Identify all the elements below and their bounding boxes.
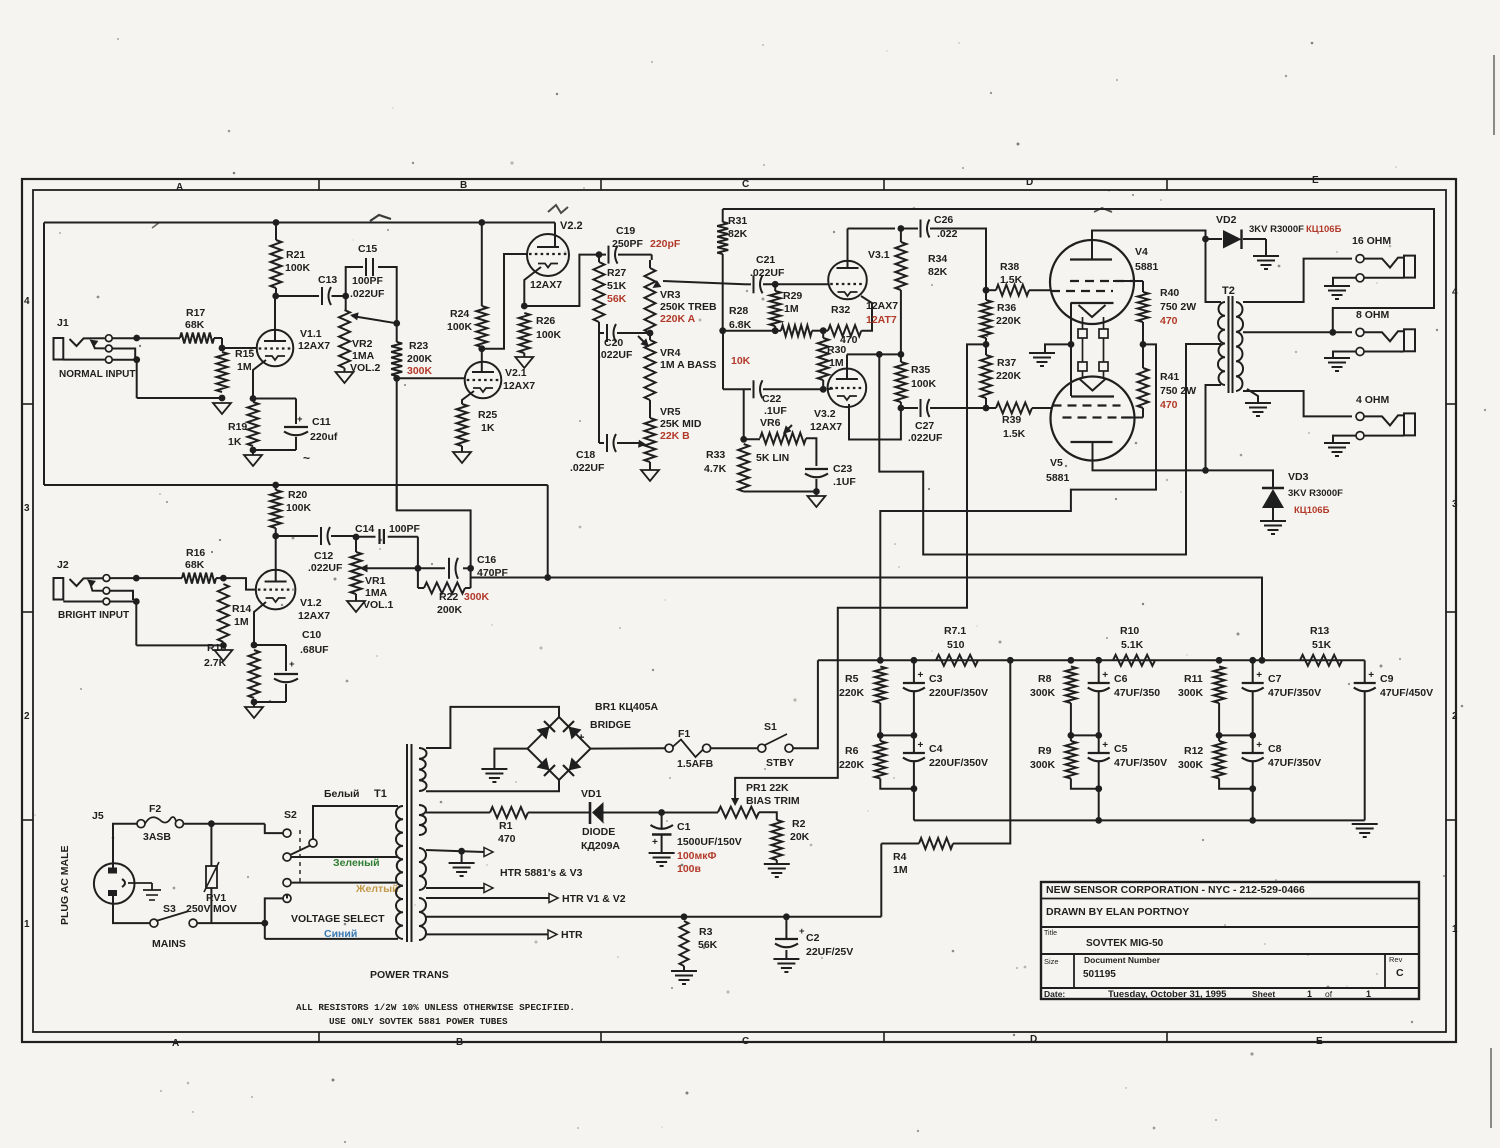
svg-text:DRAWN BY ELAN PORTNOY: DRAWN BY ELAN PORTNOY (1046, 906, 1189, 918)
node 8ohm NFB tap (1329, 329, 1336, 336)
svg-text:1.5K: 1.5K (1003, 428, 1026, 440)
wire R5C3 mid (880, 734, 914, 736)
node V1.2 plate (272, 533, 279, 540)
svg-text:51K: 51K (607, 280, 627, 292)
resistor R39 (996, 403, 1032, 414)
wire VR6 right to C23 (806, 438, 816, 466)
svg-text:470: 470 (498, 833, 516, 845)
svg-text:C26: C26 (934, 214, 953, 226)
svg-text:1500UF/150V: 1500UF/150V (677, 836, 742, 848)
capacitor C13 (321, 287, 323, 305)
wire R22 legs (417, 568, 419, 588)
resistor R9 (1065, 741, 1076, 779)
wire R32 stub (818, 330, 828, 332)
svg-text:КЦ106Б: КЦ106Б (1306, 224, 1342, 235)
title block frame (1041, 882, 1419, 999)
svg-text:C3: C3 (929, 673, 943, 685)
svg-text:Tuesday, October 31, 1995: Tuesday, October 31, 1995 (1108, 989, 1227, 1000)
wire R11C7 mid (1219, 734, 1253, 736)
wire C11 bottom (295, 437, 297, 450)
ground C2 (773, 958, 799, 960)
zone tick bottom (883, 1032, 885, 1043)
zone tick left (22, 611, 33, 613)
node B+ R21 tap (273, 219, 280, 226)
node V3.1 plate (898, 225, 905, 232)
node C2 tap (783, 913, 790, 920)
svg-text:of: of (1325, 989, 1333, 999)
jack J1 (54, 338, 64, 360)
svg-text:C21: C21 (756, 254, 775, 266)
svg-text:VR6: VR6 (760, 417, 781, 429)
wire R17 to grid node (214, 337, 222, 339)
capacitor C14 (378, 529, 380, 544)
wire S2 yellow tap (291, 882, 398, 884)
svg-text:R35: R35 (911, 364, 930, 376)
wire htr1 top lead (426, 850, 484, 852)
svg-text:BRIDGE: BRIDGE (590, 719, 631, 731)
svg-text:HTR: HTR (561, 929, 583, 941)
svg-text:C14: C14 (355, 523, 374, 535)
wire secondary 8ohm (1243, 331, 1352, 333)
wire V5 plate (1093, 442, 1206, 470)
wire heater reference bus (426, 916, 881, 918)
wire V1.2 plate lead (275, 536, 277, 582)
svg-text:Size: Size (1044, 957, 1059, 966)
svg-text:4: 4 (24, 296, 30, 307)
node V4 plate junction (1202, 236, 1209, 243)
wire V4 plate (1092, 231, 1206, 260)
resistor R20 ch2 (270, 490, 281, 528)
wire V2.1 plate lead (481, 347, 483, 372)
triode V1.2 (256, 570, 296, 610)
ground R18 (245, 707, 263, 718)
ground R3 (671, 970, 697, 972)
svg-text:+: + (918, 740, 924, 751)
svg-text:VR2: VR2 (352, 338, 373, 350)
svg-text:+: + (1102, 670, 1108, 681)
jack 4 OHM (1356, 412, 1364, 420)
svg-text:3KV R3000F: 3KV R3000F (1288, 488, 1343, 499)
svg-text:NEW SENSOR CORPORATION - NYC -: NEW SENSOR CORPORATION - NYC - 212-529-0… (1046, 884, 1305, 896)
svg-text:4 OHM: 4 OHM (1356, 394, 1390, 406)
wire R6 bottom (880, 779, 914, 789)
ground BR1 (481, 768, 507, 770)
svg-text:82K: 82K (928, 266, 948, 278)
svg-text:R13: R13 (1310, 625, 1329, 637)
wire VR6 tap from grid line (743, 389, 745, 439)
svg-text:5K LIN: 5K LIN (756, 452, 789, 464)
svg-text:R14: R14 (232, 603, 251, 615)
wire plate supply W3 (879, 344, 1221, 555)
svg-text:51K: 51K (1312, 639, 1332, 651)
svg-text:POWER TRANS: POWER TRANS (370, 969, 449, 981)
svg-text:300K: 300K (1030, 759, 1056, 771)
svg-text:R7.1: R7.1 (944, 625, 966, 637)
node V3.2 cathode out (898, 405, 905, 412)
svg-text:C: C (742, 179, 749, 190)
node VR1 top (353, 534, 360, 541)
node C3 rail (911, 657, 918, 664)
node C1 top (658, 809, 665, 816)
pot VR1 (351, 552, 362, 594)
svg-text:A: A (176, 182, 183, 193)
wire htr2 bottom lead (426, 933, 548, 935)
arrow htr1 top (484, 848, 493, 857)
fuse F1 (665, 744, 673, 752)
svg-text:SOVTEK MIG-50: SOVTEK MIG-50 (1086, 938, 1164, 949)
transformer T1 secondary bias (419, 805, 426, 835)
svg-text:R17: R17 (186, 307, 205, 319)
node B+ R24 tap (478, 219, 485, 226)
svg-text:C20: C20 (604, 337, 623, 349)
capacitor C4 (913, 735, 915, 753)
node bias mid (983, 341, 990, 348)
svg-text:2: 2 (24, 711, 30, 722)
transformer T2 core (1228, 296, 1230, 393)
bridge BR1 (528, 717, 591, 780)
node J1 sleeve (133, 356, 140, 363)
svg-text:12AX7: 12AX7 (298, 610, 330, 622)
resistor R28 (781, 325, 812, 336)
svg-text:+: + (652, 837, 658, 848)
svg-text:300K: 300K (1178, 759, 1204, 771)
svg-text:22UF/25V: 22UF/25V (806, 946, 853, 958)
wire V3.2 cathode lead (849, 404, 901, 440)
node C23 bottom (813, 488, 820, 495)
svg-text:C13: C13 (318, 274, 337, 286)
svg-text:47UF/350: 47UF/350 (1114, 687, 1160, 699)
wire C23 bottom (815, 479, 817, 492)
svg-text:100в: 100в (677, 863, 702, 875)
svg-text:BRIGHT INPUT: BRIGHT INPUT (58, 610, 129, 621)
capacitor C18 (606, 434, 608, 452)
wire V2.2 plate lead (554, 236, 556, 247)
svg-text:12AX7: 12AX7 (866, 300, 898, 312)
node tail mid (820, 327, 827, 334)
wire secondary ground (1247, 389, 1258, 402)
svg-text:1: 1 (1307, 989, 1312, 999)
svg-text:56K: 56K (607, 293, 627, 305)
svg-text:+: + (578, 732, 584, 744)
capacitor C19 (608, 246, 610, 264)
svg-text:56K: 56K (698, 939, 718, 951)
svg-text:4.7K: 4.7K (704, 463, 727, 475)
resistor R10 (1113, 655, 1155, 666)
capacitor C21 (753, 275, 755, 293)
svg-text:R8: R8 (1038, 673, 1052, 685)
svg-text:1M: 1M (893, 864, 908, 876)
resistor R7.1 (936, 655, 978, 666)
capacitor C8 (1252, 735, 1254, 753)
svg-text:22K B: 22K B (660, 430, 690, 442)
svg-text:R12: R12 (1184, 745, 1203, 757)
node R29 bottom (772, 327, 779, 334)
wire screen supply W4 (880, 344, 1156, 660)
wire V1.1 plate (274, 296, 276, 341)
svg-text:300K: 300K (407, 365, 433, 377)
node C6 rail (1095, 657, 1102, 664)
node J2 sleeve (133, 598, 140, 605)
resistor R23 (391, 342, 402, 376)
wire R9 bottom (1071, 779, 1099, 789)
svg-text:ALL RESISTORS 1/2W 10% UNLESS: ALL RESISTORS 1/2W 10% UNLESS OTHERWISE … (296, 1002, 575, 1013)
ground C23/R33 (807, 496, 825, 507)
svg-text:100мкФ: 100мкФ (677, 850, 717, 862)
svg-text:R38: R38 (1000, 261, 1019, 273)
svg-text:1M: 1M (237, 361, 252, 373)
svg-text:C7: C7 (1268, 673, 1282, 685)
svg-text:.022UF: .022UF (750, 267, 785, 279)
node R18 bottom (251, 699, 258, 706)
pot VR6 wiper arrow (784, 425, 792, 433)
svg-text:+: + (918, 670, 924, 681)
svg-text:1MA: 1MA (352, 350, 375, 362)
arrow htr1 bottom (484, 884, 493, 893)
svg-text:VR4: VR4 (660, 347, 681, 359)
wire htr1 bottom lead (426, 887, 484, 889)
svg-text:V2.1: V2.1 (505, 367, 527, 379)
transformer T1 core (406, 744, 408, 942)
svg-text:R15: R15 (235, 348, 254, 360)
ground J2/R14 (214, 650, 232, 661)
node plate supply branch (876, 351, 883, 358)
svg-text:1M A BASS: 1M A BASS (660, 359, 716, 371)
svg-text:V2.2: V2.2 (560, 220, 583, 232)
triode V3.2 (828, 369, 867, 408)
wire R33 bottom row (744, 491, 817, 493)
scan smudge above V2.2 (548, 205, 568, 213)
node R5 mid (877, 732, 884, 739)
svg-text:220K A: 220K A (660, 313, 696, 325)
resistor R11 (1214, 667, 1225, 704)
svg-text:1.5AFB: 1.5AFB (677, 758, 714, 770)
capacitor C10 (274, 673, 298, 675)
svg-text:C27: C27 (915, 420, 934, 432)
wire C22 line (722, 331, 724, 390)
wire C27 to R39 (930, 407, 986, 409)
wire S3 to T1 bottom (197, 922, 265, 924)
node VR2 top right (393, 320, 400, 327)
wire B+ top rail (44, 222, 555, 224)
svg-text:1K: 1K (481, 422, 495, 434)
svg-text:300K: 300K (464, 591, 490, 603)
svg-text:E: E (1316, 1036, 1323, 1047)
switch S2 contacts (283, 829, 291, 837)
wire V3.2 plate lead (846, 354, 848, 379)
zone tick left (22, 819, 33, 821)
wire ch2 out up (397, 485, 471, 568)
svg-text:1M: 1M (784, 303, 799, 315)
svg-text:100K: 100K (285, 262, 311, 274)
wire R8C6 mid (1071, 734, 1099, 736)
svg-text:3ASB: 3ASB (143, 831, 171, 843)
svg-text:250PF: 250PF (612, 238, 644, 250)
svg-text:C22: C22 (762, 393, 781, 405)
svg-text:R30: R30 (827, 344, 846, 356)
wire grid V1.2 (223, 578, 256, 590)
svg-text:R34: R34 (928, 253, 947, 265)
scan edge artifact top right (1493, 55, 1495, 135)
svg-text:510: 510 (947, 639, 965, 651)
svg-text:Зеленый: Зеленый (333, 857, 380, 869)
resistor R6 (875, 741, 886, 779)
svg-text:R40: R40 (1160, 287, 1179, 299)
wire V1.1 cathode (253, 360, 266, 398)
svg-text:R4: R4 (893, 851, 907, 863)
scan smudge left of J1 (152, 222, 160, 228)
node C7 rail (1249, 657, 1256, 664)
arrow htr2 bottom (548, 930, 557, 939)
wire C11 top (253, 398, 296, 400)
node screen feed (877, 657, 884, 664)
svg-text:R11: R11 (1184, 673, 1203, 685)
transformer T2 primary (1218, 302, 1225, 385)
node C14 wiper join (415, 565, 422, 572)
wire R23 column crosses B+ rail (396, 378, 398, 510)
svg-text:F1: F1 (678, 728, 690, 740)
ground htr1 ct (449, 862, 475, 864)
pot VR1 wiper arrow (366, 567, 418, 569)
svg-text:5881: 5881 (1046, 472, 1070, 484)
svg-text:C15: C15 (358, 243, 377, 255)
node S2 bottom join (261, 920, 268, 927)
wire R4 left leg (880, 844, 882, 917)
svg-text:47UF/450V: 47UF/450V (1380, 687, 1433, 699)
node C13 out (342, 293, 349, 300)
svg-text:47UF/350V: 47UF/350V (1268, 687, 1321, 699)
wire R27 column to C18 (598, 333, 600, 443)
node V1.1 plate (272, 293, 279, 300)
wire PR1 to R2 (759, 812, 777, 820)
capacitor C27 (920, 399, 922, 417)
svg-text:C1: C1 (677, 821, 691, 833)
wire VR3 wiper line (663, 281, 744, 284)
resistor R19 (248, 402, 259, 446)
node htr1 ct (458, 848, 465, 855)
svg-text:100K: 100K (536, 329, 562, 341)
wire V4 cathode bus (1070, 303, 1072, 396)
wire S1 to rail (793, 660, 818, 748)
node V5 grid res bottom (983, 405, 990, 412)
svg-text:1: 1 (1452, 924, 1458, 935)
svg-text:PR1 22K: PR1 22K (746, 782, 789, 794)
svg-text:C6: C6 (1114, 673, 1128, 685)
svg-text:Желтый: Желтый (355, 883, 399, 895)
inner border frame (33, 190, 1446, 1032)
resistor R40 (1138, 292, 1149, 322)
svg-text:.022UF: .022UF (350, 288, 385, 300)
svg-text:+: + (289, 659, 295, 670)
wire plate to C13 (276, 295, 319, 297)
svg-text:200K: 200K (437, 604, 463, 616)
triode V2.2 (527, 234, 569, 276)
svg-text:16 OHM: 16 OHM (1352, 235, 1391, 247)
resistor R31 (717, 222, 728, 254)
svg-text:.022UF: .022UF (570, 462, 605, 474)
svg-text:NORMAL INPUT: NORMAL INPUT (59, 369, 135, 380)
svg-text:Rev: Rev (1389, 955, 1403, 964)
svg-text:1M: 1M (234, 616, 249, 628)
wire S2 feed down (265, 824, 283, 833)
svg-text:220K: 220K (839, 687, 865, 699)
svg-text:C9: C9 (1380, 673, 1394, 685)
diode VD3 (1206, 470, 1274, 488)
svg-text:5.1K: 5.1K (1121, 639, 1144, 651)
ground VR2 (336, 372, 354, 383)
wire V2.2 cathode (524, 267, 541, 306)
svg-text:1K: 1K (228, 436, 242, 448)
wire plate to C12 (276, 535, 318, 537)
svg-text:220UF/350V: 220UF/350V (929, 687, 988, 699)
node V1.2 grid (220, 575, 227, 582)
resistor R34 (895, 242, 906, 290)
svg-text:250K TREB: 250K TREB (660, 301, 717, 313)
svg-text:VD3: VD3 (1288, 471, 1309, 483)
svg-text:V1.1: V1.1 (300, 328, 322, 340)
svg-text:+: + (1368, 670, 1374, 681)
svg-text:BR1 КЦ405А: BR1 КЦ405А (595, 701, 659, 713)
svg-text:Синий: Синий (324, 928, 357, 940)
svg-text:68K: 68K (185, 319, 205, 331)
svg-text:V3.1: V3.1 (868, 249, 890, 261)
wire V2.1 cathode (462, 391, 474, 404)
wire HV top to bridge (426, 707, 559, 748)
svg-text:R6: R6 (845, 745, 859, 757)
wire C26 to V4 grid (930, 229, 986, 291)
varistor RV1 (210, 824, 212, 866)
wire R28-R32 (812, 330, 818, 332)
capacitor C5 (1098, 735, 1100, 753)
svg-text:S3: S3 (163, 903, 176, 915)
node R19 bottom (250, 447, 257, 454)
node B+ R20 tap (272, 482, 279, 489)
svg-text:.022UF: .022UF (598, 349, 633, 361)
node J1 tip (133, 335, 140, 342)
svg-text:47UF/350V: 47UF/350V (1268, 757, 1321, 769)
svg-text:C11: C11 (312, 416, 331, 428)
ground J1/R15 (213, 403, 231, 414)
node V5 plate junction (1202, 467, 1209, 474)
resistor R21 (271, 240, 282, 288)
wire htr1 ct ground (461, 851, 463, 862)
resistor R1 (490, 807, 528, 818)
svg-text:C12: C12 (314, 550, 333, 562)
svg-text:C16: C16 (477, 554, 496, 566)
node V2.1 plate (478, 345, 485, 352)
triode V3.1 (828, 261, 867, 300)
wire HV bottom to bridge (426, 780, 559, 791)
wire T1 primary bottom (265, 938, 398, 940)
pot VR3 wiper arrow (653, 280, 662, 288)
svg-text:300K: 300K (1178, 687, 1204, 699)
svg-text:V1.2: V1.2 (300, 597, 322, 609)
svg-text:+: + (799, 926, 805, 937)
svg-text:VR1: VR1 (365, 575, 386, 587)
ground VR5 (641, 470, 659, 481)
node C5 gnd (1095, 817, 1102, 824)
svg-text:68K: 68K (185, 559, 205, 571)
zone tick top (318, 179, 320, 190)
resistor R13 (1300, 655, 1342, 666)
resistor R26 (519, 313, 530, 353)
svg-text:A: A (172, 1038, 179, 1049)
svg-text:5881: 5881 (1135, 261, 1159, 273)
svg-text:C23: C23 (833, 463, 852, 475)
zone tick top (883, 179, 885, 190)
jack 8 OHM (1356, 328, 1364, 336)
svg-text:R32: R32 (831, 304, 850, 316)
svg-text:501195: 501195 (1083, 969, 1116, 980)
